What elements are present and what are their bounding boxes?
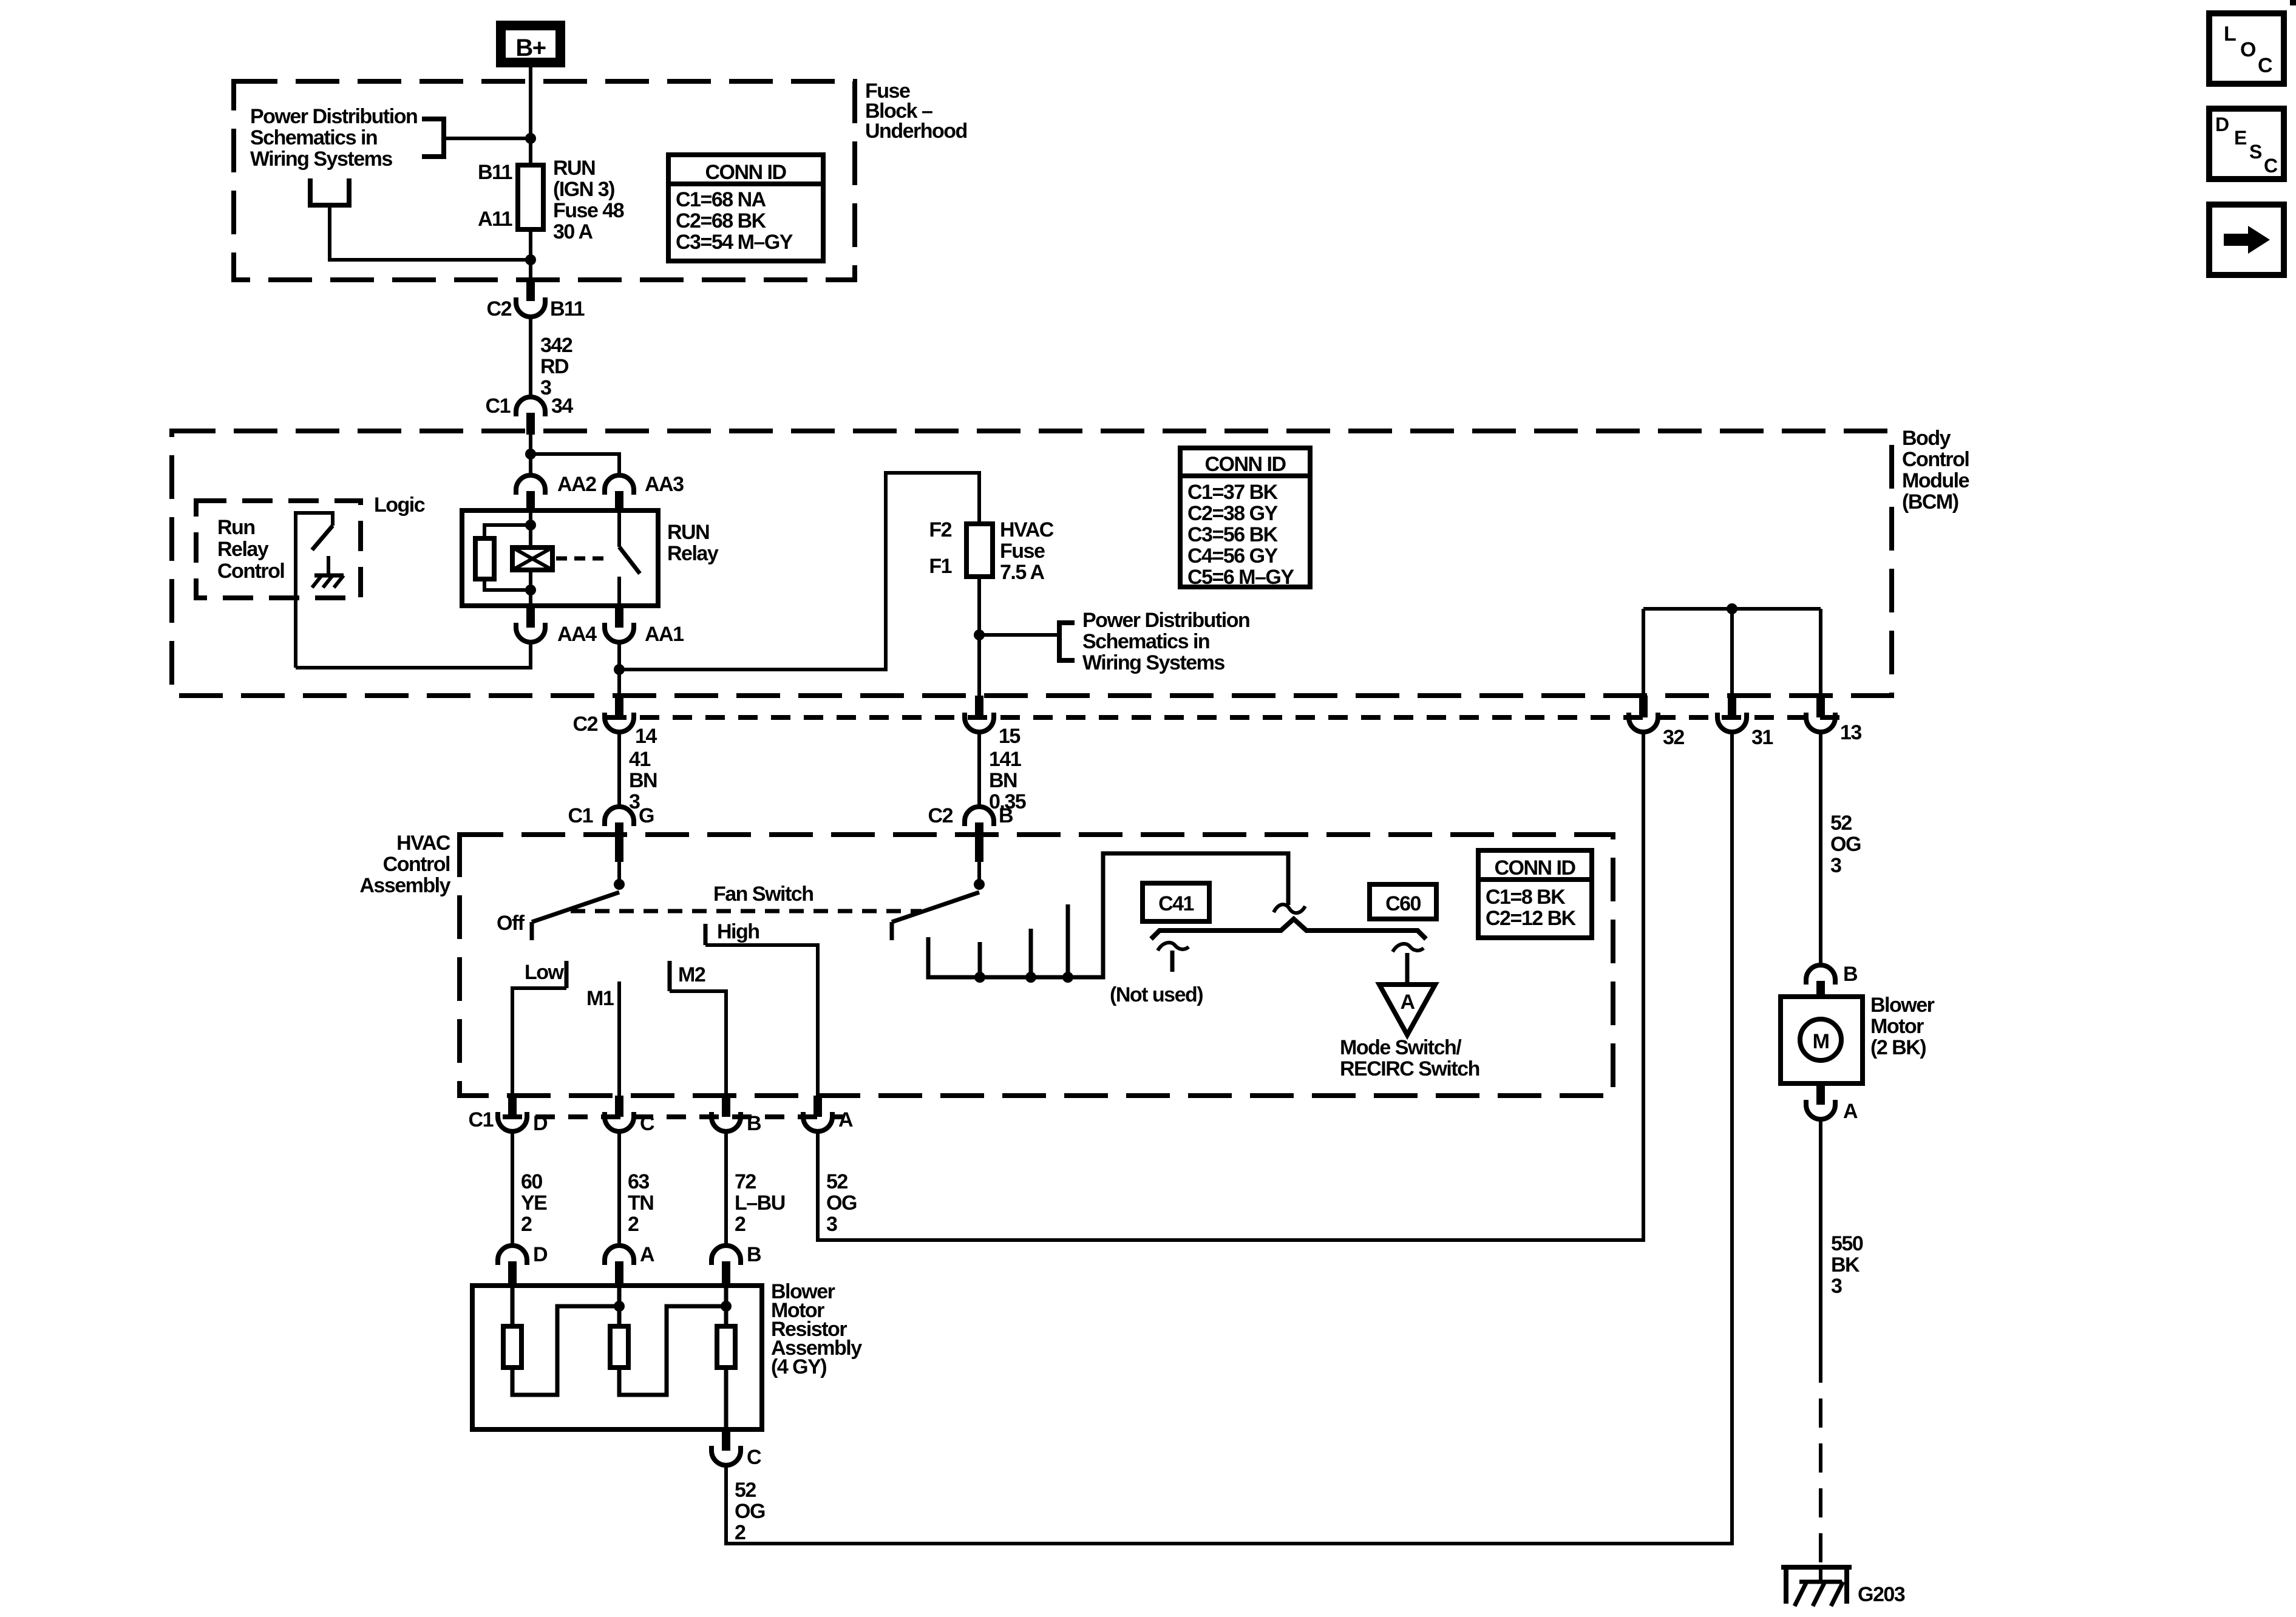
svg-text:OG: OG [1830, 833, 1861, 856]
svg-text:(4 GY): (4 GY) [771, 1355, 826, 1378]
label HVAC Control Assembly [359, 832, 450, 897]
svg-text:HVAC: HVAC [1000, 518, 1054, 541]
blower motor [1781, 997, 1863, 1083]
svg-text:HVAC: HVAC [396, 832, 450, 855]
label Blower Motor Resistor Assembly (4 GY) [771, 1280, 862, 1378]
forward arrow icon [2209, 205, 2284, 275]
svg-text:C1: C1 [568, 804, 593, 827]
wire pin 32 to HVAC pin A (52 OG 3) [818, 732, 1643, 1240]
svg-text:52: 52 [1830, 812, 1852, 835]
fan switch linkage dashed [571, 909, 922, 914]
svg-text:OG: OG [826, 1192, 857, 1215]
svg-text:C: C [2264, 155, 2278, 177]
svg-text:Control: Control [217, 560, 284, 583]
svg-text:C: C [747, 1446, 761, 1469]
ground G203 [1781, 1565, 1905, 1606]
svg-text:2: 2 [628, 1213, 639, 1236]
connector AA4 [516, 606, 597, 646]
connector AA3 [605, 473, 684, 512]
svg-text:Power Distribution: Power Distribution [250, 105, 417, 128]
node resistor 2 to B [721, 1301, 732, 1312]
svg-text:Power Distribution: Power Distribution [1082, 609, 1249, 632]
svg-text:B11: B11 [478, 161, 512, 184]
label Body Control Module (BCM) [1902, 427, 1969, 514]
connector 15 [965, 696, 1020, 748]
label Blower Motor (2 BK) [1870, 994, 1935, 1059]
wire AA1 to HVAC fuse F2 [619, 473, 979, 696]
svg-text:Low: Low [525, 961, 565, 984]
svg-text:A: A [1843, 1100, 1858, 1123]
svg-text:(IGN 3): (IGN 3) [553, 178, 614, 201]
svg-text:13: 13 [1840, 721, 1861, 744]
DESC icon [2209, 109, 2284, 179]
svg-text:C41: C41 [1158, 892, 1194, 915]
wire B+ to fuse block [529, 67, 532, 278]
Run Relay Control logic dashed box [196, 501, 361, 598]
BCM harness connector dotted line [607, 715, 1839, 720]
node F1 [974, 629, 985, 640]
svg-text:S: S [2249, 141, 2262, 163]
node at B+ wire [525, 133, 536, 144]
svg-text:C2=68 BK: C2=68 BK [676, 209, 767, 232]
svg-text:(2 BK): (2 BK) [1870, 1036, 1926, 1059]
svg-text:C1: C1 [469, 1108, 494, 1131]
wire break squiggle [1274, 904, 1305, 913]
svg-text:BN: BN [989, 769, 1017, 792]
svg-text:3: 3 [826, 1213, 837, 1236]
off-page connector bracket [310, 178, 349, 205]
wire node to AA3 [531, 454, 619, 475]
svg-text:141: 141 [989, 748, 1021, 771]
label Run Relay Control [217, 516, 284, 583]
svg-text:G: G [639, 804, 654, 827]
svg-text:41: 41 [629, 748, 650, 771]
wire C1 34 into BCM [529, 435, 532, 475]
svg-text:B: B [1843, 963, 1858, 986]
svg-text:Assembly: Assembly [359, 874, 450, 897]
connector C (resistor output) [712, 1429, 761, 1469]
svg-text:30 A: 30 A [553, 220, 593, 243]
Low contact and wire [512, 961, 566, 1096]
svg-text:3: 3 [1831, 1275, 1842, 1298]
svg-text:52: 52 [826, 1170, 847, 1193]
svg-text:B11: B11 [550, 297, 585, 320]
svg-text:Control: Control [1902, 448, 1969, 471]
wire AA4 to logic switch [296, 642, 531, 668]
svg-text:TN: TN [628, 1192, 653, 1215]
svg-text:AA4: AA4 [557, 623, 597, 646]
svg-text:C1=8 BK: C1=8 BK [1486, 886, 1566, 909]
wire pin 13 to blower motor (52 OG 3) [1819, 732, 1822, 965]
B+ power feed symbol [496, 21, 565, 67]
svg-text:34: 34 [551, 395, 573, 418]
BCM internal bus to pins 32/31/13 [1643, 609, 1821, 696]
svg-text:Off: Off [497, 912, 525, 935]
svg-text:M: M [1813, 1030, 1829, 1053]
svg-text:C1=68 NA: C1=68 NA [676, 188, 766, 211]
relay coil [512, 547, 552, 570]
mode contact comb [928, 853, 1288, 983]
svg-text:RUN: RUN [667, 521, 709, 544]
node feed AA2/AA3 [525, 449, 536, 459]
fan switch right wiper [892, 862, 985, 940]
connector 32 [1629, 696, 1684, 749]
relay coil feed wires [529, 510, 532, 547]
wire 52 OG 2 [724, 1465, 728, 1544]
wire 342 RD 3 [529, 317, 532, 398]
Off contact [497, 912, 532, 940]
node resistor 1 to A [614, 1301, 625, 1312]
svg-text:CONN ID: CONN ID [705, 161, 786, 184]
connector face bracket with break [1151, 919, 1426, 939]
wire 60 YE 2 [511, 1131, 514, 1246]
svg-text:F1: F1 [929, 555, 951, 578]
svg-text:M2: M2 [678, 963, 705, 986]
svg-text:Fuse: Fuse [1000, 540, 1045, 563]
resistor 3 [717, 1286, 735, 1429]
connector 31 [1717, 696, 1773, 749]
Blower Motor Resistor Assembly box [472, 1286, 762, 1429]
connector A [803, 1096, 853, 1131]
svg-text:31: 31 [1751, 726, 1773, 749]
svg-text:C: C [2258, 54, 2272, 77]
relay suppression resistor [475, 538, 494, 579]
svg-text:C3=56 BK: C3=56 BK [1187, 523, 1279, 546]
svg-text:(BCM): (BCM) [1902, 490, 1958, 514]
connector D (resistor) [498, 1243, 548, 1286]
page edge mark [2290, 0, 2296, 5]
wire 72 L-BU 2 [724, 1131, 728, 1246]
bracket to power distribution note [1059, 623, 1075, 660]
wire 141 BN 0.35 [977, 732, 981, 807]
svg-text:Motor: Motor [1870, 1015, 1924, 1038]
svg-text:YE: YE [521, 1192, 547, 1215]
label Fuse Block - Underhood [865, 80, 967, 143]
resistor 2 [610, 1286, 726, 1395]
connector B (resistor) [712, 1243, 761, 1286]
svg-text:Mode Switch/: Mode Switch/ [1340, 1036, 1462, 1059]
svg-text:A: A [1400, 991, 1415, 1014]
wire 41 BN 3 [617, 732, 621, 807]
note Power Distribution Schematics in Wiring Systems (BCM) [1082, 609, 1249, 674]
logic internal ground [312, 556, 344, 588]
svg-text:Relay: Relay [667, 542, 719, 565]
svg-text:D: D [533, 1112, 548, 1135]
wire off-page bracket to fuse output node [330, 205, 531, 260]
connector C2 B11 [487, 278, 585, 320]
svg-text:BN: BN [629, 769, 657, 792]
svg-text:60: 60 [521, 1170, 542, 1193]
svg-text:550: 550 [1831, 1232, 1863, 1255]
svg-text:2: 2 [735, 1521, 746, 1544]
HVAC fuse F2/F1 7.5 A [966, 524, 993, 577]
svg-text:15: 15 [999, 725, 1020, 748]
svg-text:342: 342 [540, 334, 572, 357]
connector C2 B [928, 804, 1013, 862]
svg-text:Blower: Blower [1870, 994, 1935, 1017]
svg-text:52: 52 [735, 1479, 756, 1502]
svg-text:Control: Control [383, 853, 450, 876]
svg-text:Schematics in: Schematics in [250, 126, 377, 149]
svg-text:Fuse 48: Fuse 48 [553, 199, 624, 222]
HVAC Control Assembly dashed box [460, 835, 1613, 1096]
svg-text:RD: RD [540, 355, 569, 378]
Body Control Module dashed box [172, 431, 1892, 696]
connector 13 [1806, 696, 1861, 744]
wire pin 31 to resistor pin C (52 OG 2) [726, 732, 1732, 1544]
svg-text:C4=56 GY: C4=56 GY [1187, 544, 1279, 568]
svg-text:2: 2 [735, 1213, 746, 1236]
logic switch [296, 513, 333, 668]
svg-text:E: E [2234, 127, 2247, 149]
LOC icon [2209, 13, 2284, 84]
connector C [605, 1096, 654, 1135]
svg-text:7.5 A: 7.5 A [1000, 561, 1044, 584]
svg-text:(Not used): (Not used) [1110, 983, 1203, 1006]
svg-text:C5=6 M–GY: C5=6 M–GY [1187, 566, 1294, 589]
svg-text:C2: C2 [928, 804, 953, 827]
C41 connector box [1143, 883, 1209, 921]
svg-text:A: A [838, 1108, 853, 1131]
wire F1 to bracket [979, 633, 1059, 637]
connector A (blower motor) [1806, 1083, 1858, 1123]
svg-text:OG: OG [735, 1500, 765, 1523]
RUN relay box [462, 510, 658, 606]
svg-text:C2=12 BK: C2=12 BK [1486, 907, 1577, 930]
bracket from note [422, 119, 444, 157]
svg-text:Wiring Systems: Wiring Systems [250, 147, 392, 171]
connector C2 14 [573, 696, 657, 748]
connector A (resistor) [605, 1243, 654, 1286]
node AA1 [614, 664, 625, 675]
svg-text:RECIRC Switch: RECIRC Switch [1340, 1057, 1479, 1080]
node bus pin 31 [1727, 603, 1737, 614]
svg-text:Module: Module [1902, 469, 1969, 492]
svg-text:D: D [533, 1243, 548, 1266]
wire bracket to B+ node [444, 137, 531, 140]
svg-text:B+: B+ [515, 35, 545, 61]
svg-text:C3=54 M–GY: C3=54 M–GY [676, 231, 793, 254]
connector B (blower motor) [1806, 963, 1858, 997]
connector AA2 [516, 473, 596, 512]
svg-text:RUN: RUN [553, 157, 595, 180]
svg-text:Underhood: Underhood [865, 120, 967, 143]
svg-text:C2: C2 [573, 713, 598, 736]
fan switch left wiper [532, 862, 625, 922]
svg-text:72: 72 [735, 1170, 756, 1193]
note Power Distribution Schematics in Wiring Systems (fuse block) [250, 105, 417, 171]
svg-text:M1: M1 [586, 987, 614, 1010]
svg-text:BK: BK [1831, 1253, 1860, 1276]
CONN ID table (BCM) [1180, 448, 1310, 589]
svg-text:3: 3 [1830, 854, 1841, 877]
svg-text:C1=37 BK: C1=37 BK [1187, 481, 1279, 504]
connector B [712, 1096, 761, 1135]
connector C1 34 [486, 395, 574, 435]
label RUN Relay [667, 521, 719, 565]
relay linkage dashed [556, 557, 608, 561]
svg-text:Schematics in: Schematics in [1082, 630, 1209, 653]
svg-text:AA3: AA3 [645, 473, 684, 496]
svg-text:Wiring Systems: Wiring Systems [1082, 651, 1224, 674]
svg-text:B: B [999, 804, 1013, 827]
svg-text:CONN ID: CONN ID [1204, 453, 1286, 476]
M1 contact and wire [586, 981, 619, 1096]
svg-text:C1: C1 [486, 395, 511, 418]
svg-text:CONN ID: CONN ID [1494, 856, 1575, 880]
label Mode Switch / RECIRC Switch [1340, 1036, 1479, 1080]
svg-text:L: L [2224, 22, 2236, 46]
svg-text:C2=38 GY: C2=38 GY [1187, 502, 1279, 525]
CONN ID table (fuse block) [668, 155, 823, 261]
CONN ID table (HVAC) [1478, 850, 1592, 938]
connector AA1 [605, 606, 684, 646]
M2 contact and wire [670, 961, 726, 1096]
svg-text:B: B [747, 1243, 761, 1266]
resistor 1 [503, 1286, 619, 1395]
wire 550 BK 3 [1819, 1119, 1822, 1354]
svg-text:High: High [717, 920, 759, 943]
svg-text:D: D [2215, 114, 2229, 135]
C60 connector box [1370, 884, 1436, 919]
svg-text:F2: F2 [929, 518, 951, 541]
svg-text:AA1: AA1 [645, 623, 684, 646]
fuse value label [553, 157, 624, 243]
node below fuse [525, 254, 536, 265]
svg-text:A: A [640, 1243, 654, 1266]
svg-text:B: B [747, 1112, 761, 1135]
wire 63 TN 2 [617, 1131, 621, 1246]
HVAC harness connector dotted line [503, 1114, 844, 1119]
svg-text:3: 3 [540, 376, 551, 399]
svg-text:14: 14 [635, 725, 657, 748]
wire 52 OG 3 label (left) [826, 1170, 857, 1236]
svg-text:O: O [2240, 38, 2256, 61]
mode switch terminal and triangle A [1379, 944, 1435, 1035]
svg-text:C2: C2 [487, 297, 512, 320]
svg-text:C60: C60 [1385, 892, 1421, 915]
svg-text:A11: A11 [478, 208, 512, 231]
svg-text:Fan Switch: Fan Switch [713, 883, 813, 906]
svg-text:63: 63 [628, 1170, 649, 1193]
svg-text:Logic: Logic [374, 493, 425, 517]
svg-text:Body: Body [1902, 427, 1951, 450]
Fuse Block - Underhood dashed box [234, 81, 855, 280]
svg-text:2: 2 [521, 1213, 532, 1236]
svg-text:C: C [640, 1112, 654, 1135]
connector C1 D [469, 1096, 548, 1135]
svg-text:G203: G203 [1858, 1583, 1905, 1606]
svg-text:L–BU: L–BU [735, 1192, 785, 1215]
fuse 48 RUN (IGN 3) 30 A [518, 165, 543, 229]
connector C1 G [568, 804, 654, 862]
svg-text:Run: Run [217, 516, 255, 539]
svg-text:AA2: AA2 [557, 473, 596, 496]
HVAC fuse value label [1000, 518, 1054, 584]
relay switch [619, 512, 640, 606]
svg-text:Relay: Relay [217, 538, 269, 561]
not used terminal [1110, 943, 1203, 1006]
High contact and wire [705, 920, 818, 1096]
svg-text:32: 32 [1663, 726, 1684, 749]
